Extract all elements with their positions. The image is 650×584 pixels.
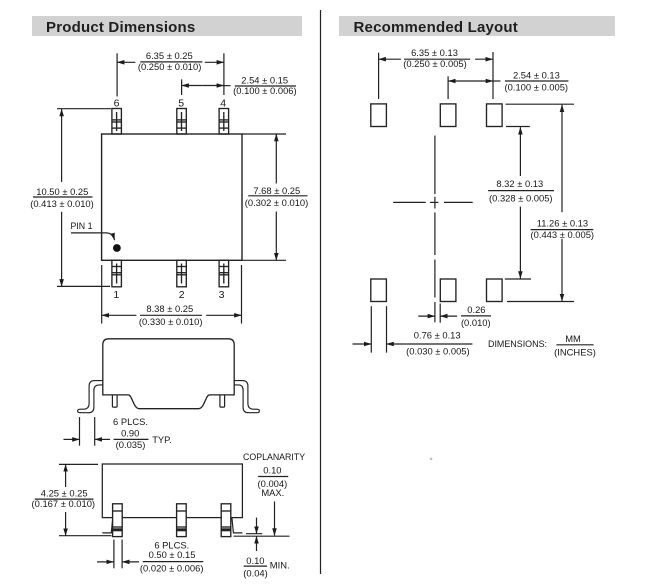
svg-text:(0.328 ± 0.005): (0.328 ± 0.005) [489,192,553,203]
svg-text:MAX.: MAX. [261,487,284,498]
bottom pads top extension line [505,278,531,280]
svg-text:(0.020 ± 0.006): (0.020 ± 0.006) [140,563,204,574]
vertical centerline [434,136,436,323]
0.10 min up arrow [256,536,258,551]
svg-text:4.25 ± 0.25: 4.25 ± 0.25 [41,487,88,498]
svg-text:3: 3 [219,289,225,301]
front lead 1 (front view) [113,504,123,537]
dimension 6.35 extension lines [116,53,118,96]
horizontal centerline [393,201,473,203]
svg-text:1: 1 [113,289,119,301]
layout dim 6.35 fraction bar [404,58,470,60]
dimension 7.68 fraction bar [248,195,307,197]
pin 2 (top view) [177,260,187,287]
0.10 min fraction bar [244,565,267,567]
dimension 10.50 fraction bar [33,196,93,198]
svg-text:(0.100 ± 0.005): (0.100 ± 0.005) [505,82,569,93]
dimension 7.68 extension lines [242,133,286,135]
dimension 8.38 fraction bar [140,314,202,316]
dimensions mm/inches fraction bar [556,344,593,346]
pad 1 (layout) [371,279,387,302]
svg-text:2: 2 [179,289,185,301]
layout dim 2.54 arrows [448,80,471,82]
svg-text:(0.010): (0.010) [461,317,491,328]
dim 0.26 extension line [439,304,441,323]
seating plane line left [59,535,112,537]
layout dim 11.26 fraction bar [531,229,594,231]
svg-text:MM: MM [565,333,581,344]
dimension 2.54 extension line [181,79,183,95]
pad 4 (layout) [487,104,503,127]
dim 0.26 arrows [418,315,435,317]
svg-text:4: 4 [220,97,226,109]
standoff tab right (side view) [220,395,225,407]
svg-text:(0.030 ± 0.005): (0.030 ± 0.005) [406,346,470,357]
dim 0.76 extension lines [370,306,372,352]
dim 0.76 fraction bar [406,343,472,345]
pin 5 (top view) [177,109,187,135]
pad 6 (layout) [371,104,387,127]
pin 4 (top view) [219,109,229,135]
svg-text:COPLANARITY: COPLANARITY [243,452,305,462]
svg-text:0.10: 0.10 [263,464,281,475]
svg-text:10.50 ± 0.25: 10.50 ± 0.25 [36,186,88,197]
svg-text:0.76 ± 0.13: 0.76 ± 0.13 [414,330,461,341]
svg-text:8.32 ± 0.13: 8.32 ± 0.13 [496,178,543,189]
dimension 8.38 arrows [102,314,137,316]
dimension 4.25 fraction bar [35,498,94,500]
layout dim 6.35 arrows [379,58,401,60]
svg-text:MIN.: MIN. [270,560,290,571]
side lead edge-on left (front view) [102,518,113,533]
layout dim 6.35 extension lines [378,53,380,99]
pin 1 index dot [113,244,121,252]
front lead 2 (front view) [177,504,187,537]
package body (front view) [102,464,242,518]
pad 3 (layout) [487,279,503,302]
svg-text:0.50 ± 0.15: 0.50 ± 0.15 [149,549,196,560]
svg-text:(0.330 ± 0.010): (0.330 ± 0.010) [139,316,203,327]
dimension 4.25 arrows [65,464,67,487]
pad 2 (layout) [440,279,456,302]
svg-text:7.68 ± 0.25: 7.68 ± 0.25 [253,185,300,196]
svg-text:6: 6 [114,97,120,109]
dim 0.26 fraction bar [461,315,491,317]
svg-text:2.54 ± 0.13: 2.54 ± 0.13 [513,69,560,80]
svg-text:6 PLCS.: 6 PLCS. [113,416,148,427]
svg-text:PIN 1: PIN 1 [71,221,93,231]
standoff tab left (side view) [112,395,117,407]
svg-text:DIMENSIONS:: DIMENSIONS: [488,339,547,350]
package body (side view) [103,339,234,409]
pad 4 top extension line [506,103,575,105]
dimension 0.50 arrows [97,561,114,563]
column divider rule [320,10,322,574]
gull-wing lead left (side view) [78,381,103,413]
dimension 10.50 extension lines [57,108,111,110]
svg-text:11.26 ± 0.13: 11.26 ± 0.13 [537,217,588,228]
svg-text:(0.100 ± 0.006): (0.100 ± 0.006) [233,85,297,96]
dimension 0.90 arrows [64,438,80,440]
header bar: Recommended Layout [339,16,615,36]
dimension 0.90 fraction bar [114,438,149,440]
dim 0.76 arrows [353,343,372,345]
layout dim 8.32 arrows [519,127,521,176]
svg-text:6.35 ± 0.25: 6.35 ± 0.25 [146,50,193,61]
pad 5 (layout) [440,104,456,127]
svg-text:0.90: 0.90 [121,428,139,439]
svg-text:(0.302 ± 0.010): (0.302 ± 0.010) [245,197,309,208]
svg-text:(0.167 ± 0.010): (0.167 ± 0.010) [32,498,96,509]
PIN 1 leader line [71,233,115,240]
seating plane line right [234,535,290,537]
pin 1 (top view) [112,260,122,287]
layout dim 8.32 fraction bar [488,190,554,192]
svg-text:Product Dimensions: Product Dimensions [46,19,195,36]
svg-text:(0.443 ± 0.005): (0.443 ± 0.005) [531,229,595,240]
svg-text:(INCHES): (INCHES) [554,346,596,357]
svg-text:5: 5 [178,97,184,109]
dimension 10.50 arrows [61,109,63,182]
dimension 0.50 fraction bar [143,561,204,563]
svg-text:2.54 ± 0.15: 2.54 ± 0.15 [241,74,288,85]
gull-wing lead right (side view) [234,381,259,413]
layout dim 2.54 fraction bar [505,80,569,82]
layout dim 2.54 extension line [447,76,449,99]
dimension 2.54 fraction bar [235,85,296,87]
0.10 min down arrow [256,518,258,534]
pin 3 (top view) [219,260,229,287]
dimension 7.68 arrows [275,134,277,184]
package body (top view) [102,134,242,260]
dimension 0.50 extension lines [113,540,115,569]
coplanarity arrow [274,502,276,536]
svg-text:0.10: 0.10 [246,555,264,566]
dimension 0.90 extension lines [79,417,81,446]
front lead 3 (front view) [221,504,231,537]
dimension 4.25 extension line [59,463,98,465]
svg-text:6.35 ± 0.13: 6.35 ± 0.13 [411,47,458,58]
svg-text:(0.413 ± 0.010): (0.413 ± 0.010) [30,198,94,209]
header bar: Product Dimensions [32,16,302,36]
svg-text:(0.250 ± 0.010): (0.250 ± 0.010) [138,61,202,72]
pin 6 (top view) [112,109,122,135]
dimension 6.35 arrows [117,61,135,63]
svg-text:0.26: 0.26 [467,304,485,315]
scan speck artifact [430,458,432,460]
dimension 2.54 arrows [182,85,203,87]
side lead edge-on right (front view) [232,518,243,533]
bottom pads bottom extension line [507,301,574,303]
svg-text:(0.035): (0.035) [116,439,146,450]
coplanarity fraction bar [258,476,288,478]
dimension 8.38 extension lines [101,265,103,324]
dimension 6.35 fraction bar [140,61,202,63]
0.10 min tick line [246,533,262,535]
svg-text:TYP.: TYP. [152,434,172,445]
svg-text:(0.04): (0.04) [243,567,268,578]
svg-text:Recommended Layout: Recommended Layout [354,19,518,36]
layout dim 11.26 arrows [561,105,563,213]
svg-text:8.38 ± 0.25: 8.38 ± 0.25 [146,303,193,314]
pad 4 bottom extension line [506,126,530,128]
svg-text:(0.250 ± 0.005): (0.250 ± 0.005) [403,58,467,69]
